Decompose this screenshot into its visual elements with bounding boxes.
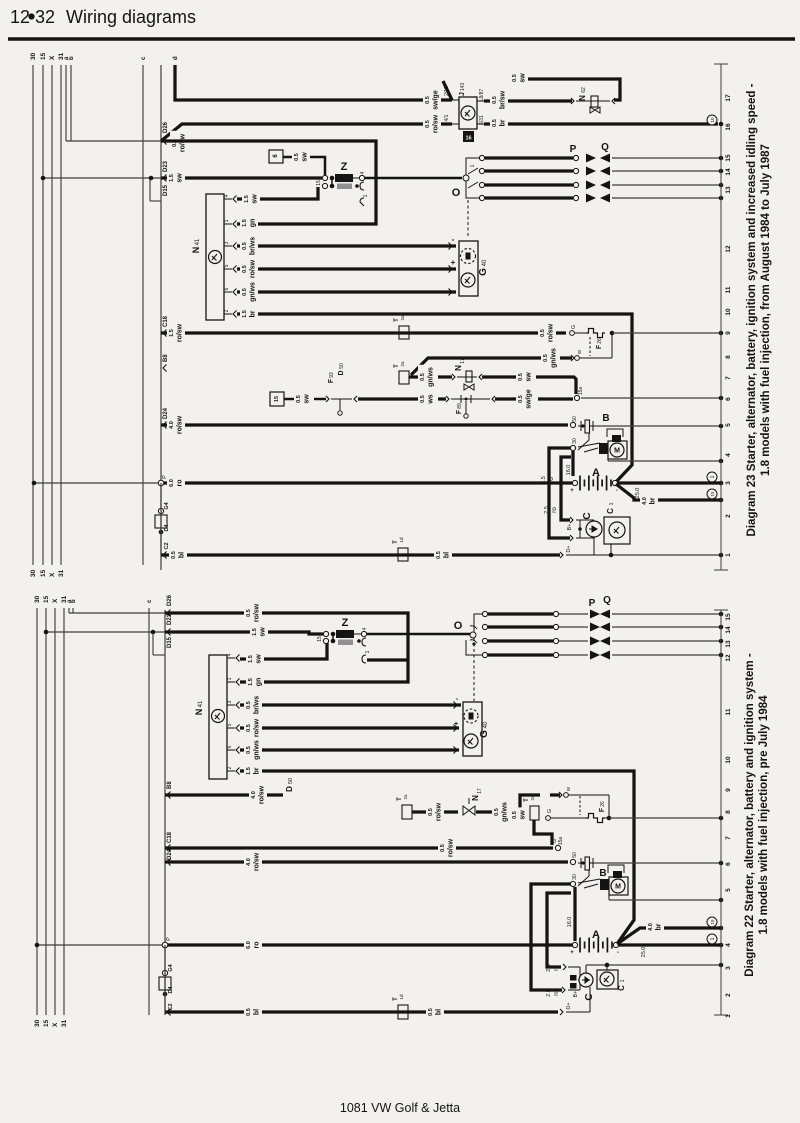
svg-text:62: 62: [581, 87, 587, 93]
svg-text:F: F: [596, 344, 603, 349]
svg-text:sw: sw: [256, 654, 263, 664]
svg-text:15: 15: [725, 154, 732, 162]
svg-text:6.0: 6.0: [169, 479, 175, 487]
svg-text:ro: ro: [177, 480, 184, 487]
svg-text:B+: B+: [573, 991, 579, 998]
svg-text:D15: D15: [167, 636, 173, 648]
svg-text:sw: sw: [520, 810, 527, 820]
svg-text:1d: 1d: [399, 994, 404, 1000]
svg-text:15: 15: [40, 569, 47, 577]
svg-text:7: 7: [725, 836, 732, 840]
svg-text:D: D: [338, 370, 345, 375]
svg-text:2.5: 2.5: [544, 506, 550, 514]
svg-text:Z: Z: [342, 617, 349, 629]
svg-text:1.5: 1.5: [252, 628, 258, 636]
svg-text:15: 15: [710, 491, 715, 497]
svg-text:0.5: 0.5: [420, 373, 426, 381]
svg-text:10: 10: [710, 117, 715, 123]
svg-text:bl: bl: [444, 552, 451, 558]
svg-text:0.5: 0.5: [420, 395, 426, 403]
svg-text:0.5: 0.5: [294, 153, 300, 161]
svg-text:M: M: [614, 448, 620, 455]
svg-text:sw: sw: [526, 372, 533, 382]
svg-text:A: A: [592, 467, 600, 479]
svg-text:50: 50: [339, 363, 345, 369]
svg-text:4.0: 4.0: [246, 858, 252, 866]
svg-text:Diagram 23 Starter, alternato: Diagram 23 Starter, alternator, battery,…: [746, 83, 758, 536]
svg-text:ws: ws: [428, 394, 435, 404]
svg-text:2.5: 2.5: [546, 989, 552, 997]
svg-text:D+: D+: [566, 545, 572, 552]
svg-text:2: 2: [725, 514, 732, 518]
svg-text:sw: sw: [302, 152, 309, 162]
svg-text:0.5: 0.5: [425, 96, 431, 104]
svg-text:0.5: 0.5: [543, 354, 549, 362]
svg-text:40: 40: [483, 721, 489, 728]
svg-text:0.5: 0.5: [425, 120, 431, 128]
svg-text:50: 50: [572, 416, 578, 422]
svg-text:7: 7: [725, 376, 732, 380]
svg-text:-: -: [616, 488, 618, 494]
svg-text:br/ws: br/ws: [254, 696, 261, 714]
svg-text:13: 13: [725, 186, 732, 194]
svg-text:1.8 models with fuel injection: 1.8 models with fuel injection, from Aug…: [760, 144, 772, 476]
svg-text:gn/ws: gn/ws: [502, 802, 509, 822]
svg-text:16: 16: [725, 123, 732, 131]
svg-text:B+: B+: [567, 524, 573, 531]
svg-text:0.5: 0.5: [512, 811, 518, 819]
svg-text:0.5: 0.5: [246, 701, 252, 709]
svg-text:ro/sw: ro/sw: [250, 259, 257, 278]
svg-text:G: G: [478, 268, 489, 276]
svg-text:4: 4: [725, 943, 732, 947]
svg-text:16.0: 16.0: [567, 917, 573, 928]
svg-text:1.5: 1.5: [248, 678, 254, 686]
svg-text:30: 30: [34, 1019, 41, 1027]
svg-text:17: 17: [477, 788, 483, 794]
svg-text:G: G: [547, 809, 553, 813]
svg-text:D4: D4: [164, 524, 170, 532]
svg-text:1: 1: [224, 219, 230, 222]
svg-text:40: 40: [482, 259, 488, 266]
svg-text:D15: D15: [163, 184, 169, 196]
svg-text:12: 12: [725, 245, 732, 253]
svg-text:1: 1: [365, 650, 371, 653]
svg-text:14: 14: [725, 626, 732, 634]
svg-text:15a: 15a: [558, 837, 564, 846]
svg-text:1: 1: [710, 937, 716, 940]
svg-text:N: N: [454, 365, 463, 371]
svg-text:1.5: 1.5: [244, 195, 250, 203]
svg-text:1.8 models with fuel injection: 1.8 models with fuel injection, pre July…: [758, 695, 770, 935]
svg-text:ro/sw: ro/sw: [548, 323, 555, 342]
svg-text:+: +: [570, 950, 574, 956]
svg-text:sw/ge: sw/ge: [433, 90, 440, 110]
svg-text:3: 3: [224, 241, 230, 244]
svg-text:4: 4: [725, 453, 732, 457]
svg-text:6: 6: [725, 397, 732, 401]
svg-text:26: 26: [597, 338, 603, 344]
svg-text:9: 9: [725, 788, 732, 792]
svg-text:0.5: 0.5: [242, 242, 248, 250]
svg-text:1d: 1d: [399, 537, 404, 543]
svg-text:N: N: [191, 247, 201, 254]
svg-text:0.5: 0.5: [494, 808, 500, 816]
svg-text:12: 12: [10, 7, 30, 27]
svg-text:13: 13: [725, 640, 732, 648]
svg-text:ro: ro: [548, 477, 555, 483]
svg-text:32: 32: [35, 7, 55, 27]
svg-text:14: 14: [725, 168, 732, 176]
svg-text:2a: 2a: [400, 361, 405, 367]
svg-text:30: 30: [34, 595, 41, 603]
svg-text:89: 89: [457, 403, 463, 409]
svg-text:0.5: 0.5: [242, 265, 248, 273]
svg-text:G4: G4: [168, 963, 174, 971]
svg-text:br: br: [656, 923, 663, 930]
svg-text:1.5: 1.5: [169, 329, 175, 337]
svg-text:ro/sw: ro/sw: [254, 718, 261, 737]
svg-text:bl: bl: [254, 1009, 261, 1015]
svg-text:6: 6: [725, 862, 732, 866]
svg-text:4: 4: [360, 171, 366, 174]
svg-text:F: F: [456, 409, 463, 414]
svg-text:ro/sw: ro/sw: [436, 802, 443, 821]
svg-text:gn: gn: [250, 219, 257, 228]
svg-text:G: G: [479, 730, 490, 738]
svg-text:gn/ws: gn/ws: [254, 740, 261, 760]
svg-text:ro/sw: ro/sw: [259, 785, 266, 804]
svg-text:4.0: 4.0: [648, 923, 654, 931]
svg-text:1: 1: [227, 677, 233, 680]
svg-text:2.5: 2.5: [546, 964, 552, 972]
svg-text:X: X: [52, 598, 59, 603]
svg-text:ro/sw: ro/sw: [177, 323, 184, 342]
svg-text:D23: D23: [163, 160, 169, 172]
svg-text:17: 17: [460, 358, 466, 364]
svg-text:0.5: 0.5: [428, 808, 434, 816]
svg-text:1: 1: [725, 553, 732, 557]
svg-text:15: 15: [43, 1019, 50, 1027]
svg-text:P: P: [166, 937, 172, 941]
svg-text:N: N: [578, 95, 587, 101]
svg-text:C: C: [617, 985, 626, 991]
svg-text:Z: Z: [341, 161, 348, 173]
svg-text:2a: 2a: [403, 794, 408, 800]
svg-text:B8: B8: [163, 354, 169, 362]
svg-text:4/1: 4/1: [444, 114, 450, 121]
svg-text:br: br: [500, 119, 507, 126]
svg-text:D4: D4: [168, 986, 174, 994]
svg-text:bl: bl: [179, 552, 186, 558]
svg-text:1: 1: [609, 502, 615, 505]
svg-text:4: 4: [224, 194, 230, 197]
svg-text:1: 1: [620, 979, 626, 982]
svg-text:1.5: 1.5: [248, 655, 254, 663]
svg-text:10: 10: [725, 756, 732, 764]
svg-text:sw: sw: [260, 627, 267, 637]
svg-text:1081 VW Golf & Jetta: 1081 VW Golf & Jetta: [340, 1101, 460, 1115]
svg-text:93: 93: [329, 372, 335, 378]
svg-text:ro: ro: [551, 507, 558, 513]
svg-text:0.5: 0.5: [492, 96, 498, 104]
svg-text:30: 30: [30, 52, 37, 60]
svg-text:D26: D26: [163, 121, 169, 133]
svg-text:D26: D26: [167, 594, 173, 606]
svg-text:Wiring diagrams: Wiring diagrams: [66, 7, 196, 27]
svg-text:30: 30: [572, 874, 578, 880]
svg-text:ro: ro: [553, 990, 560, 996]
svg-text:D+: D+: [566, 1002, 572, 1009]
svg-text:gn/ws: gn/ws: [551, 348, 558, 368]
svg-text:+: +: [570, 488, 574, 494]
svg-text:B8: B8: [167, 781, 173, 789]
svg-text:6: 6: [227, 745, 233, 748]
svg-text:0.5: 0.5: [440, 844, 446, 852]
svg-text:2a: 2a: [530, 795, 535, 801]
svg-text:O: O: [452, 187, 461, 199]
svg-text:D23: D23: [167, 613, 173, 625]
svg-text:Diagram 22 Starter, alternato: Diagram 22 Starter, alternator, battery …: [744, 653, 756, 977]
svg-text:4.0: 4.0: [169, 421, 175, 429]
svg-text:3: 3: [725, 481, 732, 485]
svg-text:0.5: 0.5: [296, 395, 302, 403]
svg-text:6.0: 6.0: [246, 941, 252, 949]
svg-text:X: X: [52, 1022, 59, 1027]
svg-text:d: d: [173, 56, 179, 60]
svg-text:0.5: 0.5: [171, 551, 177, 559]
svg-text:41: 41: [198, 700, 204, 707]
svg-text:G4: G4: [164, 501, 170, 509]
svg-text:31: 31: [61, 1019, 68, 1027]
svg-text:5: 5: [725, 423, 732, 427]
svg-text:F: F: [328, 378, 335, 383]
svg-text:sw: sw: [252, 194, 259, 204]
svg-text:ro/sw: ro/sw: [180, 133, 187, 152]
svg-text:3: 3: [227, 700, 233, 703]
svg-text:4: 4: [227, 653, 233, 656]
svg-text:X: X: [49, 55, 56, 60]
svg-text:12: 12: [725, 654, 732, 662]
svg-text:br: br: [254, 767, 261, 774]
svg-text:4.0: 4.0: [251, 791, 257, 799]
svg-text:br/sw: br/sw: [500, 90, 507, 109]
svg-text:w: w: [577, 350, 583, 355]
svg-text:C18: C18: [167, 831, 173, 843]
svg-text:0.5: 0.5: [518, 373, 524, 381]
svg-text:br/ws: br/ws: [250, 237, 257, 255]
svg-text:0.5: 0.5: [246, 724, 252, 732]
svg-text:A: A: [592, 929, 600, 941]
svg-text:C2: C2: [164, 542, 170, 549]
svg-text:B: B: [599, 868, 606, 879]
svg-text:P: P: [589, 598, 596, 609]
svg-text:3: 3: [725, 966, 732, 970]
svg-text:0.5: 0.5: [246, 746, 252, 754]
svg-text:ro: ro: [254, 942, 261, 949]
svg-text:5: 5: [224, 264, 230, 267]
svg-text:L8/87: L8/87: [479, 89, 485, 102]
svg-text:-: -: [617, 950, 619, 956]
svg-text:0.5: 0.5: [428, 1008, 434, 1016]
svg-text:C: C: [582, 512, 593, 519]
svg-text:1.5: 1.5: [246, 767, 252, 775]
svg-text:G: G: [571, 325, 577, 329]
svg-text:10: 10: [725, 308, 732, 316]
svg-text:4: 4: [362, 627, 368, 630]
svg-text:2.5: 2.5: [541, 476, 547, 484]
svg-text:5: 5: [227, 723, 233, 726]
svg-text:0.5: 0.5: [512, 74, 518, 82]
svg-text:5: 5: [725, 888, 732, 892]
svg-text:+: +: [454, 721, 458, 728]
svg-text:17: 17: [725, 94, 732, 102]
svg-text:Q: Q: [601, 142, 609, 153]
svg-text:1: 1: [725, 1014, 732, 1018]
svg-text:X: X: [49, 572, 56, 577]
svg-text:gn: gn: [256, 678, 263, 687]
svg-text:sw: sw: [304, 394, 311, 404]
svg-text:26: 26: [600, 801, 606, 807]
svg-text:25.0: 25.0: [641, 947, 647, 958]
svg-text:P: P: [570, 144, 577, 155]
svg-text:0.5: 0.5: [246, 1008, 252, 1016]
svg-text:ro/sw: ro/sw: [433, 114, 440, 133]
svg-text:ro/sw: ro/sw: [254, 852, 261, 871]
svg-text:M: M: [615, 884, 621, 891]
svg-text:8: 8: [725, 355, 732, 359]
svg-text:Q: Q: [603, 595, 611, 606]
svg-text:31: 31: [58, 569, 65, 577]
svg-text:F: F: [599, 807, 606, 812]
svg-text:30: 30: [572, 438, 578, 444]
svg-text:N: N: [194, 709, 204, 716]
svg-text:50: 50: [288, 778, 294, 784]
svg-text:143: 143: [460, 83, 466, 92]
svg-text:2a: 2a: [400, 315, 405, 321]
svg-text:16.0: 16.0: [566, 465, 572, 476]
svg-text:gn/ws: gn/ws: [428, 367, 435, 387]
svg-text:b: b: [71, 599, 77, 603]
svg-text:1: 1: [710, 475, 716, 478]
svg-text:11: 11: [725, 286, 732, 293]
svg-text:+: +: [451, 258, 456, 267]
svg-text:6: 6: [224, 287, 230, 290]
svg-text:J: J: [459, 92, 466, 96]
svg-text:D: D: [285, 786, 294, 792]
svg-text:15: 15: [725, 613, 732, 621]
svg-text:0.5: 0.5: [436, 551, 442, 559]
svg-text:C: C: [606, 508, 615, 514]
svg-text:ro/sw: ro/sw: [177, 415, 184, 434]
svg-text:2: 2: [227, 766, 233, 769]
svg-text:11: 11: [725, 708, 732, 715]
svg-text:ro: ro: [553, 965, 560, 971]
svg-text:8: 8: [725, 810, 732, 814]
svg-text:41: 41: [195, 238, 201, 245]
svg-text:0.5: 0.5: [540, 329, 546, 337]
svg-text:B: B: [602, 413, 609, 424]
svg-text:15: 15: [710, 919, 715, 925]
svg-text:15: 15: [43, 595, 50, 603]
svg-text:0.5: 0.5: [246, 609, 252, 617]
svg-text:4.0: 4.0: [642, 497, 648, 505]
svg-text:-: -: [452, 235, 455, 244]
svg-text:15: 15: [317, 636, 323, 642]
svg-text:sw/ge: sw/ge: [526, 389, 533, 409]
svg-text:50: 50: [572, 852, 578, 858]
svg-text:sw: sw: [177, 173, 184, 183]
svg-text:N: N: [471, 795, 480, 801]
svg-text:2: 2: [224, 309, 230, 312]
svg-text:b: b: [69, 56, 75, 60]
svg-text:0.5: 0.5: [242, 288, 248, 296]
svg-text:1: 1: [363, 194, 369, 197]
svg-text:bl: bl: [436, 1009, 443, 1015]
svg-text:1.5: 1.5: [242, 310, 248, 318]
svg-text:1: 1: [470, 164, 476, 167]
svg-text:ro/sw: ro/sw: [448, 838, 455, 857]
svg-text:1.5: 1.5: [169, 174, 175, 182]
svg-text:0.5: 0.5: [492, 119, 498, 127]
svg-text:1.5: 1.5: [242, 219, 248, 227]
svg-text:15: 15: [274, 396, 280, 402]
svg-text:O: O: [454, 620, 463, 632]
svg-text:br: br: [250, 310, 257, 317]
svg-text:15a: 15a: [578, 387, 584, 396]
svg-text:br: br: [650, 497, 657, 504]
svg-text:30: 30: [30, 569, 37, 577]
svg-text:9: 9: [725, 331, 732, 335]
svg-text:w: w: [566, 787, 572, 792]
svg-text:15: 15: [316, 180, 322, 186]
svg-text:0.5: 0.5: [518, 395, 524, 403]
svg-text:sw: sw: [520, 73, 527, 83]
svg-text:gn/ws: gn/ws: [250, 282, 257, 302]
svg-text:16: 16: [465, 136, 471, 142]
svg-text:2: 2: [725, 993, 732, 997]
svg-text:ro/sw: ro/sw: [254, 603, 261, 622]
svg-text:15: 15: [40, 52, 47, 60]
